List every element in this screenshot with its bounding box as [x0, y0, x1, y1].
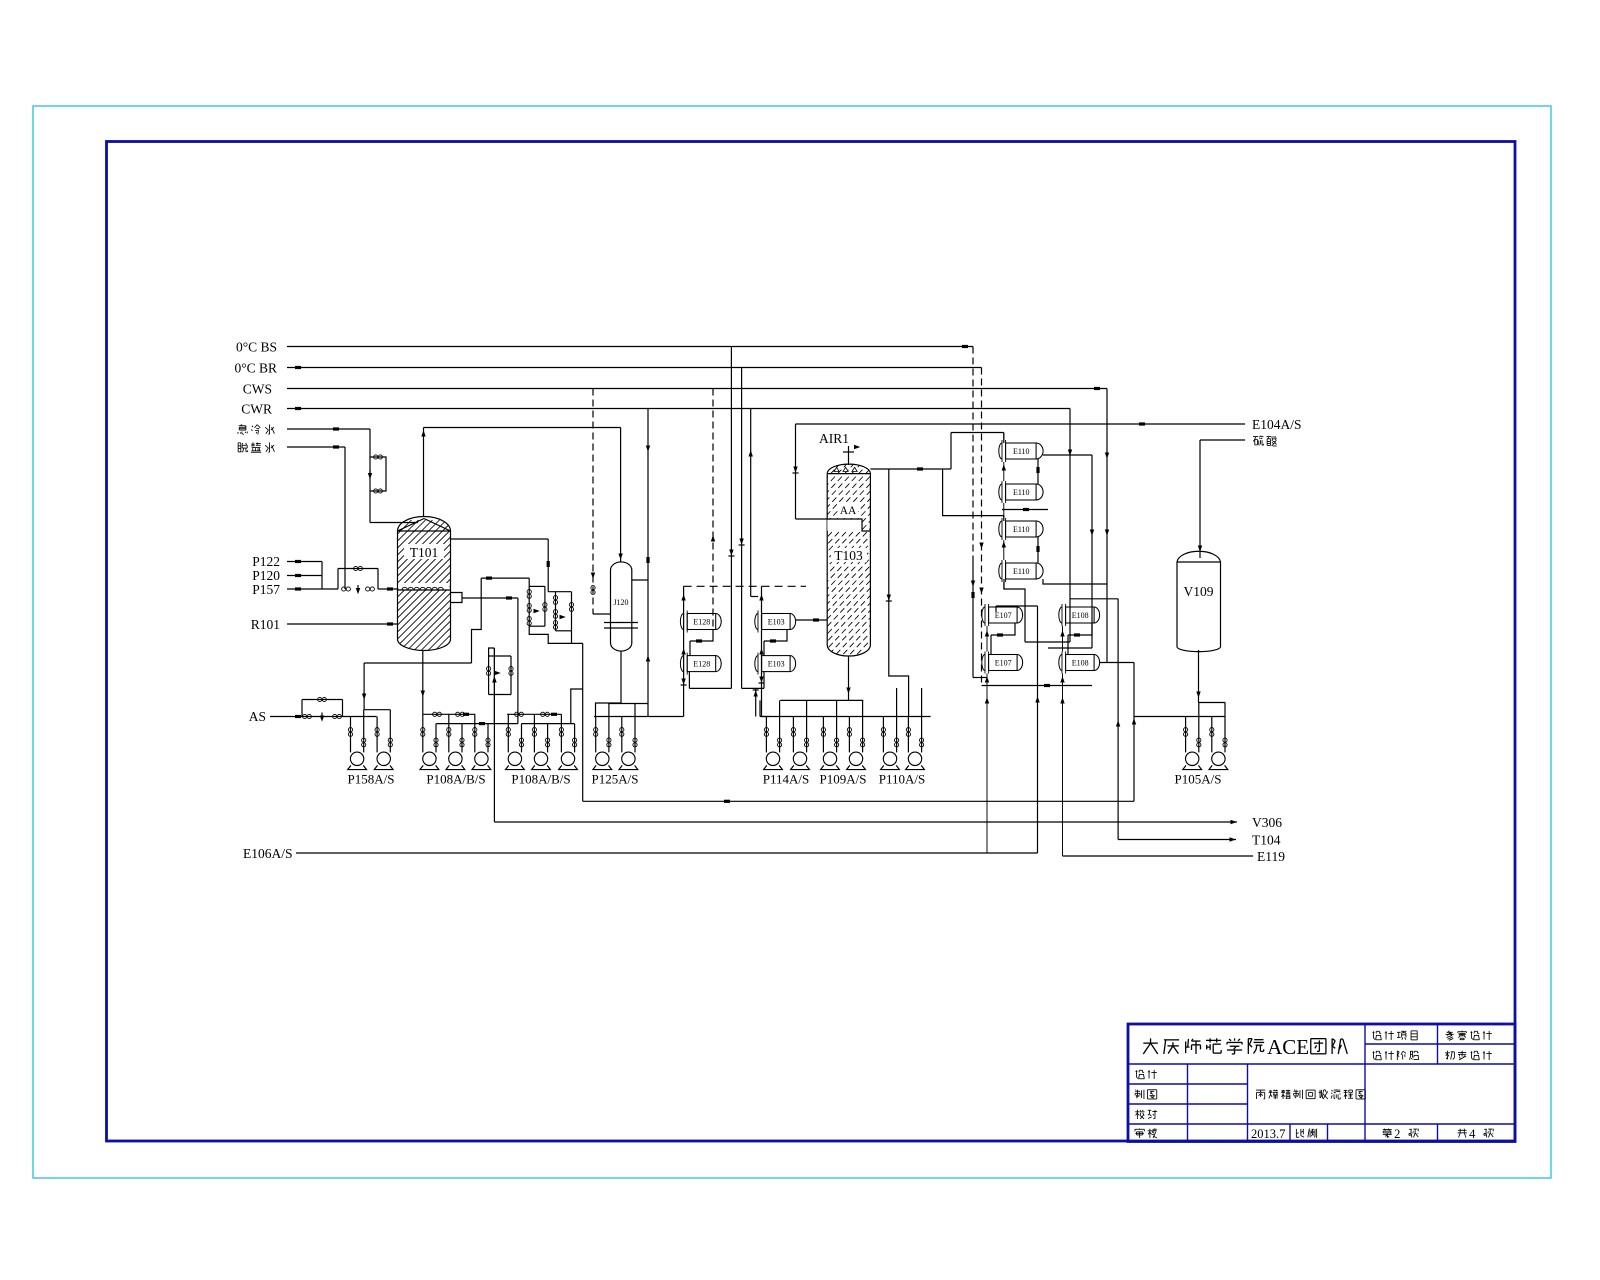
wire T101 overhead to J120	[424, 427, 621, 429]
title cell cansai sheji	[1446, 1031, 1492, 1041]
pump P109S	[847, 700, 866, 769]
wire assembly B outlet	[571, 631, 573, 644]
title text team name	[1143, 1035, 1347, 1059]
label P114A/S	[763, 772, 809, 787]
svg-text:E107: E107	[995, 659, 1012, 668]
wire P105 suction header	[1134, 716, 1225, 718]
line T104	[1118, 837, 1236, 841]
column J120 label	[613, 598, 628, 607]
svg-text:0°C BR: 0°C BR	[234, 361, 277, 376]
pump P110A	[881, 688, 900, 770]
valve assembly B below T101	[548, 592, 573, 631]
wire BR down x981 (dashed)	[979, 368, 983, 686]
svg-text:P122: P122	[252, 554, 280, 569]
label V306	[1252, 815, 1282, 830]
exchanger E108 A	[1059, 604, 1100, 626]
wire feed into T101	[378, 587, 398, 590]
wire discharge line y801	[583, 800, 1134, 803]
pump P108B-2	[532, 714, 551, 769]
line sulfuric acid	[1200, 439, 1245, 441]
wire P122/P120 join	[321, 562, 323, 590]
wire reflux zigzag	[472, 578, 482, 663]
vessel V109 label	[1184, 584, 1214, 599]
svg-text:AS: AS	[249, 709, 266, 724]
wire E108 jumper	[1068, 623, 1092, 655]
wire E107 left manifold	[985, 626, 989, 853]
svg-text:R101: R101	[251, 617, 280, 632]
line R101 feed	[287, 622, 398, 625]
label P158A/S	[348, 772, 395, 787]
svg-text:P120: P120	[252, 568, 280, 583]
pump P108B-1	[446, 714, 465, 769]
svg-text:P105A/S: P105A/S	[1175, 772, 1222, 787]
wire E103 left manifold	[759, 586, 765, 716]
wire T103 overhead right	[870, 467, 951, 470]
svg-text:P109A/S: P109A/S	[820, 772, 867, 787]
line P157 feed	[287, 587, 338, 590]
svg-text:V109: V109	[1184, 584, 1214, 599]
title cell sheet total	[1458, 1127, 1494, 1141]
wire T101 top vapor to right	[451, 538, 549, 540]
pump P105S	[1209, 703, 1228, 770]
column T103 shell	[627, 455, 1079, 668]
exchanger E128 B	[680, 653, 721, 675]
wire V306 riser	[492, 648, 496, 822]
inner navy border frame	[107, 142, 1516, 1142]
wire P158 discharge header	[362, 694, 390, 710]
wire T103 overhead tee down	[886, 469, 909, 717]
label desalted water	[238, 442, 274, 452]
svg-text:ACE: ACE	[1267, 1035, 1309, 1059]
svg-text:P157: P157	[252, 582, 280, 597]
svg-text:E110: E110	[1013, 447, 1030, 456]
title block grid	[1128, 1024, 1515, 1142]
wire T103 overhead up x951	[950, 433, 952, 470]
wire desalted water down	[344, 447, 346, 589]
title cell bili	[1296, 1129, 1316, 1138]
column T103 top nozzles	[834, 467, 857, 471]
wire quench water down to T101 top	[370, 429, 418, 523]
line 0C BS header	[287, 345, 973, 348]
wire loop outlet down x582	[582, 643, 584, 801]
svg-text:E128: E128	[693, 618, 710, 627]
label P120	[252, 568, 280, 583]
svg-text:CWR: CWR	[241, 402, 272, 417]
label E104A/S	[1252, 417, 1302, 432]
pump P105A	[1183, 703, 1202, 770]
svg-text:E104A/S: E104A/S	[1252, 417, 1302, 432]
exchanger E103 A	[755, 611, 796, 633]
vessel V109 shell	[1177, 551, 1221, 651]
wire CWR branch to J120	[632, 409, 651, 581]
title cell sheet no	[1383, 1127, 1418, 1141]
exchanger E110 #1	[999, 440, 1043, 462]
wire T103 overhead tee to E110 pair2	[943, 469, 1004, 521]
column T101 overhead riser	[421, 428, 425, 518]
line CWS header	[287, 387, 1107, 390]
pump P114S	[791, 700, 810, 769]
label AIR1	[819, 431, 849, 446]
wire BS tee corner to E128	[689, 672, 731, 689]
svg-text:P108A/B/S: P108A/B/S	[511, 772, 570, 787]
column T103 AA tray step	[827, 503, 870, 531]
wire P108g1 suction header	[423, 712, 475, 716]
wire riser top join	[489, 648, 495, 656]
svg-text:E110: E110	[1013, 567, 1030, 576]
wire BS down x973 (dashed)	[971, 347, 987, 678]
pump P108S-2	[559, 714, 578, 769]
wire CWR corner to E110 bottom	[1025, 641, 1070, 643]
label 0C BS	[236, 340, 277, 355]
wire T103 feed from E103	[796, 618, 828, 621]
line CWR header	[287, 407, 1070, 410]
valve assembly A below T101	[527, 578, 547, 626]
wire vapor drop x548	[547, 539, 550, 592]
wire J120 bottom outlet	[596, 651, 622, 717]
pump P109A	[821, 700, 840, 769]
wire E107 jumper	[991, 623, 1015, 655]
wire T101 bottom outlet	[421, 651, 425, 715]
line P122 feed	[287, 560, 322, 563]
svg-text:V306: V306	[1252, 815, 1282, 830]
pump P108A-1	[420, 714, 439, 769]
wire T103 bottoms header	[780, 699, 863, 701]
label T104	[1252, 833, 1281, 848]
valve bypass near V306 riser	[487, 656, 514, 695]
wire BR tee corner to E103	[742, 672, 764, 689]
svg-text:P110A/S: P110A/S	[879, 772, 925, 787]
svg-text:J120: J120	[613, 598, 628, 607]
label R101	[251, 617, 280, 632]
svg-text:0°C BS: 0°C BS	[236, 340, 277, 355]
wire T103 feed from E104 line	[793, 424, 828, 519]
outer cyan border frame	[33, 106, 1551, 1178]
pump P125A	[593, 704, 612, 770]
line desalted water	[287, 445, 345, 448]
wire exchanger header dashed	[684, 585, 806, 587]
wire E106A/S riser	[1035, 606, 1039, 853]
title drawing name	[1256, 1089, 1365, 1099]
wire CWS down x1107	[1105, 389, 1109, 663]
label CWR	[241, 402, 272, 417]
wire T103 overhead to E110	[951, 433, 1004, 444]
wire E103 series jumper	[764, 630, 787, 656]
column J120 shell	[604, 562, 638, 651]
label P108A/B/S 2	[511, 772, 570, 787]
exchanger E107 B	[982, 652, 1023, 674]
label E106A/S	[243, 846, 293, 861]
valve bypass on AS line	[302, 697, 343, 721]
svg-text:4: 4	[1469, 1127, 1476, 1141]
wire bottoms suction header	[760, 716, 931, 718]
label P157	[252, 582, 280, 597]
label P125A/S	[592, 772, 639, 787]
wire P105 discharge header	[1199, 702, 1226, 704]
wire E110 left manifold	[1002, 433, 1006, 589]
line AS feed	[270, 715, 352, 718]
pump P108S-1	[472, 714, 491, 769]
wire BS tee down x731	[728, 347, 734, 689]
svg-text:E108: E108	[1072, 611, 1089, 620]
svg-text:T103: T103	[834, 548, 863, 563]
valve bypass on T101 feed	[338, 566, 378, 594]
wire E110 bottom to CWS drop	[1043, 579, 1107, 584]
wire T101 bottoms branch	[364, 663, 471, 710]
wire CWR down x1070	[1068, 409, 1072, 643]
svg-text:P114A/S: P114A/S	[763, 772, 809, 787]
wire E106 top link	[982, 684, 1093, 687]
wire CWR tee down x751	[749, 409, 753, 597]
exchanger E110 #4	[999, 560, 1043, 582]
wire bottoms drop to suction header	[759, 700, 761, 716]
title cell chubu sheji	[1445, 1051, 1492, 1060]
pump P158A	[348, 710, 367, 770]
pump P108A-2	[506, 714, 525, 769]
line E106A/S	[296, 852, 1038, 854]
title cell zhitu	[1135, 1090, 1157, 1099]
wire E128 series jumper	[690, 630, 713, 656]
exchanger E110 #2	[999, 481, 1043, 503]
line 0C BR header	[287, 366, 982, 369]
svg-text:AIR1: AIR1	[819, 431, 849, 446]
wire assemblies outlet	[529, 626, 583, 643]
column T101 side draw step	[451, 593, 463, 603]
wire J120 feed drop	[618, 428, 622, 563]
pump P125S	[619, 704, 638, 770]
wire E110 bottom out	[1004, 579, 1025, 642]
svg-text:E110: E110	[1013, 525, 1030, 534]
wire x1134 riser	[1132, 663, 1136, 802]
label quench water	[238, 424, 275, 434]
svg-text:E108: E108	[1072, 659, 1089, 668]
exchanger E107 A	[982, 604, 1023, 626]
pump P114A	[764, 700, 783, 769]
wire P110 riser	[753, 688, 759, 717]
title cell jiaodui	[1135, 1110, 1157, 1119]
label P110A/S	[879, 772, 925, 787]
title cell sheji xiangmu	[1373, 1031, 1418, 1040]
svg-text:P108A/B/S: P108A/B/S	[426, 772, 485, 787]
column T101 label	[404, 544, 444, 560]
exchanger E128 A	[680, 611, 721, 633]
svg-text:E110: E110	[1013, 488, 1030, 497]
wire CWS branch to J120 (dashed)	[591, 389, 611, 615]
line E119	[1063, 855, 1254, 857]
label sulfuric acid	[1253, 436, 1277, 446]
svg-text:AA: AA	[840, 505, 857, 517]
title date 2013.7	[1251, 1127, 1285, 1141]
label AS	[249, 709, 266, 724]
svg-text:2: 2	[1394, 1127, 1400, 1141]
wire P108g2 suction header	[507, 712, 561, 716]
wire E110 jumper 3-4	[1036, 537, 1039, 563]
wire AIR1 inlet	[843, 445, 860, 465]
svg-text:E119: E119	[1257, 849, 1285, 864]
exchanger E103 B	[755, 653, 796, 675]
svg-text:E103: E103	[768, 660, 785, 669]
wire P108g1 header2	[436, 722, 518, 725]
wire P125 suction header	[594, 716, 684, 718]
wire P125 discharge header	[609, 703, 648, 705]
label P105A/S	[1175, 772, 1222, 787]
label P109A/S	[820, 772, 867, 787]
svg-text:CWS: CWS	[243, 382, 272, 397]
wire acid down to V109	[1198, 440, 1202, 558]
wire T104 riser top link	[1070, 598, 1118, 600]
wire E110 pair divider	[1002, 508, 1048, 511]
title cell sheji jieduan	[1373, 1051, 1419, 1060]
title cell sheji	[1136, 1070, 1157, 1079]
wire E103 manifold to P114	[762, 716, 771, 718]
column T101 distributor caps	[398, 583, 451, 590]
wire BR tee down x741	[739, 368, 745, 689]
exchanger E110 #3	[999, 518, 1043, 540]
wire E108 out to x1134 riser	[1100, 662, 1134, 664]
wire V109 bottom outlet	[1196, 650, 1200, 703]
wire CWS tee down x713 (dashed)	[711, 389, 715, 630]
svg-text:P158A/S: P158A/S	[348, 772, 395, 787]
svg-text:E128: E128	[693, 660, 710, 669]
wire V306 riser lower	[492, 648, 496, 724]
wire reflux h578	[481, 577, 529, 580]
svg-text:P125A/S: P125A/S	[592, 772, 639, 787]
wire E103 feed from x751	[751, 596, 758, 598]
title cell shenhe	[1135, 1128, 1157, 1138]
wire x1092 riser	[1043, 455, 1094, 648]
wire CWR branch down to P125 header	[646, 580, 650, 717]
label E119	[1257, 849, 1285, 864]
valve bypass on quench line	[368, 455, 386, 493]
label CWS	[243, 382, 272, 397]
column T103 label	[831, 548, 867, 563]
svg-text:T104: T104	[1252, 833, 1281, 848]
exchanger E108 B	[1059, 652, 1100, 674]
wire E108 left manifold	[1060, 626, 1064, 856]
wire P108g2 header2	[522, 723, 575, 725]
svg-text:E106A/S: E106A/S	[243, 846, 293, 861]
wire P158 suction header	[352, 716, 377, 718]
svg-text:2013.7: 2013.7	[1251, 1127, 1285, 1141]
wire E110 jumper 1-2	[1036, 459, 1039, 484]
column T101 shell	[268, 517, 580, 651]
wire side draw drop x518	[517, 598, 519, 724]
line E104A/S	[796, 422, 1246, 425]
pump P110S	[906, 688, 925, 770]
wire T103 bottom outlet	[846, 656, 850, 700]
svg-text:E107: E107	[995, 611, 1012, 620]
svg-text:E103: E103	[768, 618, 785, 627]
line quench water	[287, 427, 370, 430]
pump P158S	[374, 710, 393, 770]
wire T104 riser	[1116, 599, 1120, 840]
wire side draw line	[462, 596, 518, 599]
label P108A/B/S 1	[426, 772, 485, 787]
label P122	[252, 554, 280, 569]
wire E128 left manifold	[681, 586, 687, 716]
line V306	[494, 820, 1237, 824]
svg-text:T101: T101	[410, 545, 439, 560]
label 0C BR	[234, 361, 277, 376]
wire E107 top feed	[996, 606, 1038, 612]
wire P108g2 discharge riser	[571, 689, 583, 724]
line P120 feed	[287, 574, 322, 577]
